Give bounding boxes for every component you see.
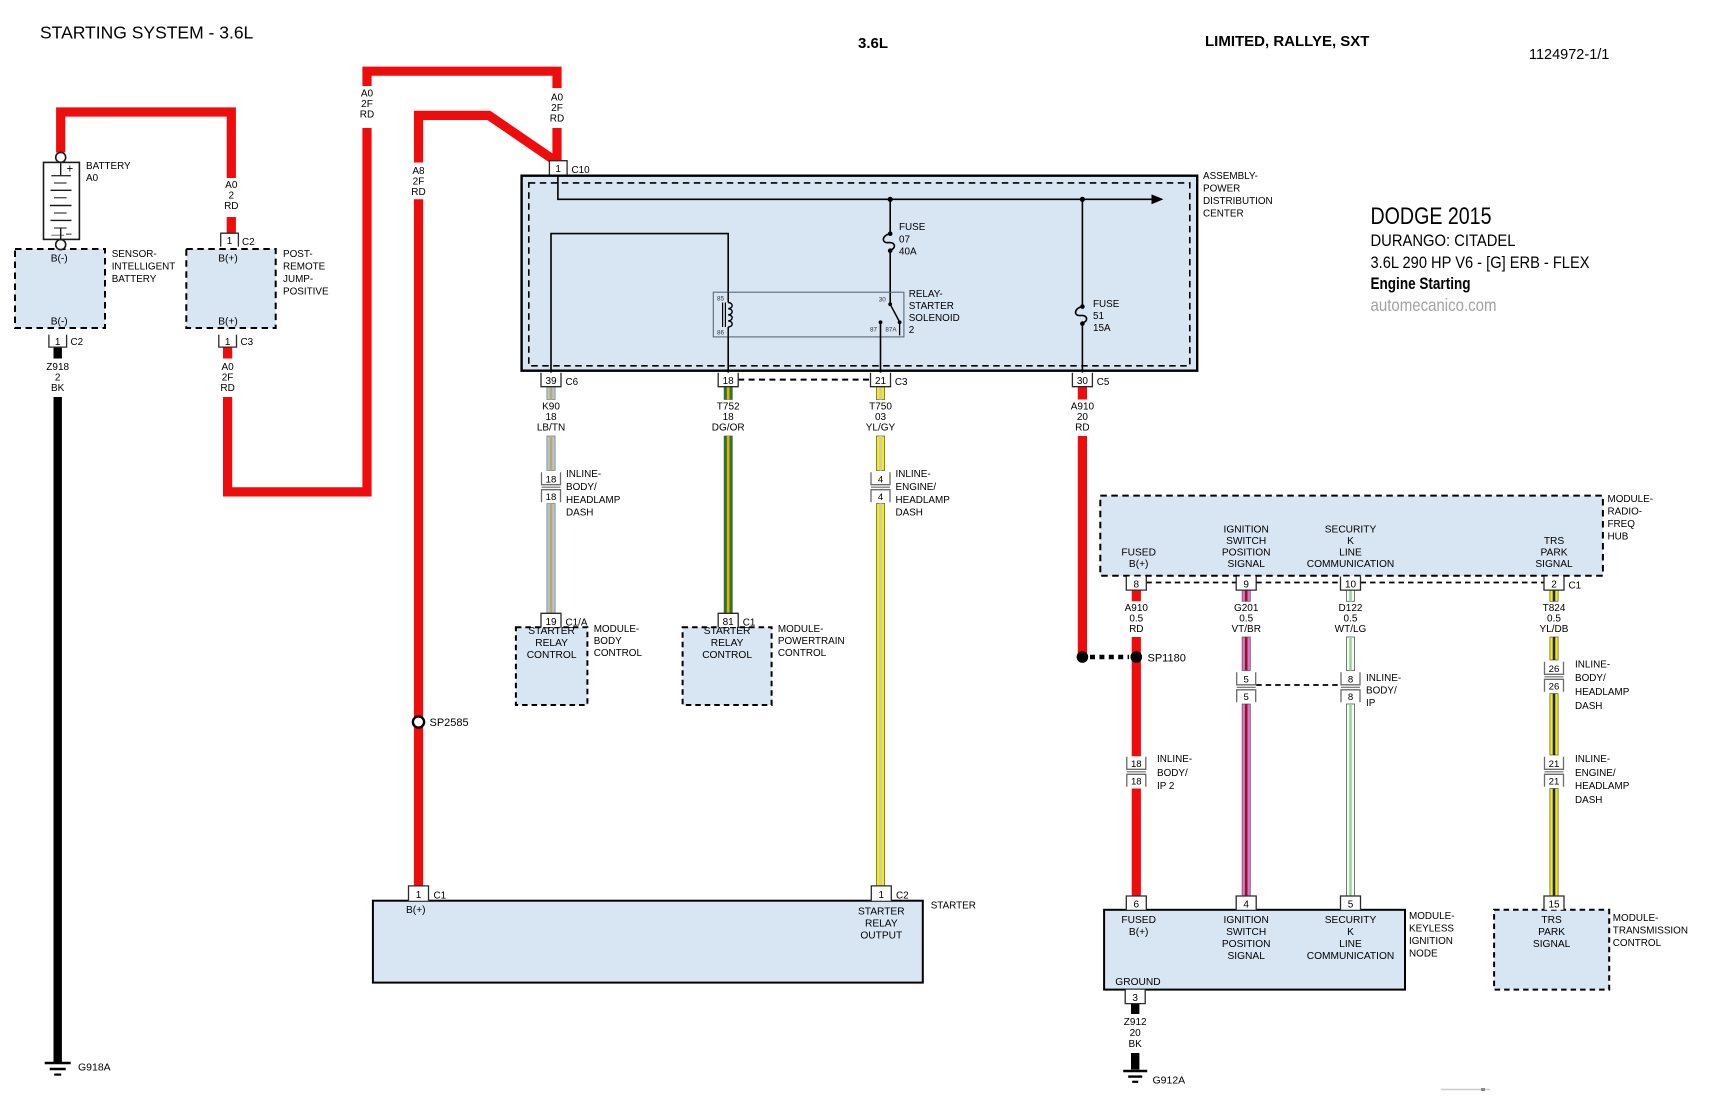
svg-text:1124972-1/1: 1124972-1/1 [1529,47,1609,63]
relay switch pins 30 87 87A [870,297,902,336]
svg-text:BK: BK [1129,1039,1143,1050]
svg-text:SECURITY: SECURITY [1325,915,1377,926]
label G912A [1153,1075,1186,1087]
label wire A0 2 RD [224,180,238,212]
svg-text:15A: 15A [1093,323,1111,334]
wire Z912 20 BK keyless ground [1131,1004,1139,1070]
svg-text:FUSE: FUSE [1093,299,1120,310]
label wire Z912 20 BK [1124,1017,1147,1050]
starter box [373,901,923,983]
module-powertrain control box [683,627,772,705]
svg-text:HEADLAMP: HEADLAMP [566,495,621,506]
svg-text:SWITCH: SWITCH [1226,536,1266,547]
svg-text:SENSOR-: SENSOR- [112,249,157,260]
svg-text:26: 26 [1549,664,1560,675]
connector pin 15 transmission [1544,896,1564,910]
svg-text:T752: T752 [717,402,740,413]
svg-text:15: 15 [1548,899,1560,910]
splice SP2585 [413,716,424,727]
svg-text:RD: RD [550,114,564,125]
dashed link pin18 to pin21 [738,379,870,381]
svg-text:G918A: G918A [78,1062,111,1074]
svg-text:HEADLAMP: HEADLAMP [1575,781,1630,792]
svg-text:A0: A0 [221,362,234,373]
svg-text:C3: C3 [895,377,908,388]
svg-text:PARK: PARK [1538,927,1565,938]
svg-text:0.5: 0.5 [1344,614,1358,625]
svg-text:A0: A0 [225,180,238,191]
label starter relay output [858,907,905,942]
connector pin 1 C10 [549,161,590,176]
svg-text:POWERTRAIN: POWERTRAIN [778,636,845,647]
svg-text:MODULE-: MODULE- [1613,913,1659,924]
svg-text:OUTPUT: OUTPUT [860,931,902,942]
wire internal T750 from pin 87 to pin 21 [880,322,882,372]
label wire A910 20 RD [1071,402,1095,434]
svg-text:2F: 2F [413,177,425,188]
svg-text:2: 2 [229,191,235,202]
svg-text:DODGE 2015: DODGE 2015 [1371,203,1492,230]
svg-text:ENGINE/: ENGINE/ [896,482,937,493]
label wire A8 2F RD [411,166,425,198]
svg-text:21: 21 [1549,777,1560,788]
svg-text:DISTRIBUTION: DISTRIBUTION [1203,196,1273,207]
svg-text:8: 8 [1134,580,1140,591]
svg-text:RD: RD [360,110,374,121]
svg-text:1: 1 [555,164,561,175]
svg-text:INLINE-: INLINE- [1366,673,1401,684]
svg-text:IGNITION: IGNITION [1224,915,1269,926]
label wire T824 0.5 YL/DB [1540,603,1569,635]
label wire T750 03 YL/GY [866,402,896,434]
label starter [931,901,976,912]
label wire A0 2F RD left [220,362,234,394]
svg-text:4: 4 [878,492,884,503]
connector pin 10 hub [1341,577,1361,591]
sensor-intelligent battery box [15,249,105,328]
svg-text:3.6L: 3.6L [858,35,888,52]
hub pin label ignition switch position signal [1222,525,1271,571]
label wire A0 2F RD right [550,93,564,125]
ground G918A [45,1063,71,1075]
svg-text:A0: A0 [551,93,564,104]
svg-text:CONTROL: CONTROL [527,650,577,661]
label inline body IP 2 [1157,754,1192,792]
svg-text:8: 8 [1348,692,1353,703]
wire A910 0.5 RD from hub pin 8 through SP1180 to keyless pin 6 [1132,590,1141,896]
svg-text:C2: C2 [896,891,909,902]
connector pin 5 keyless [1341,896,1361,910]
svg-text:RELAY: RELAY [865,919,898,930]
wire Z918 2 BK battery negative [54,347,62,1063]
svg-text:4: 4 [1243,899,1249,910]
svg-text:ASSEMBLY-: ASSEMBLY- [1203,171,1258,182]
svg-text:A8: A8 [412,166,425,177]
svg-text:G201: G201 [1234,603,1259,614]
connector pin 9 hub [1236,577,1256,591]
wire internal K90 branch from C6 to relay coil [551,234,728,373]
svg-text:INLINE-: INLINE- [896,469,931,480]
splice SP1180 [1077,651,1143,663]
svg-text:SIGNAL: SIGNAL [1533,939,1571,950]
svg-text:SIGNAL: SIGNAL [1228,559,1266,570]
label module powertrain control [778,624,845,659]
label wire T752 18 DG/OR [712,402,745,434]
connector pin 1 C2 starter [871,886,908,902]
svg-text:6: 6 [1134,899,1140,910]
svg-text:−: − [66,229,73,241]
svg-text:SP2585: SP2585 [430,717,469,729]
svg-text:PARK: PARK [1541,548,1568,559]
dashed link inline 5 to inline 8 [1256,684,1340,686]
label inline body headlamp dash right [1575,660,1630,713]
svg-text:BODY/: BODY/ [566,482,597,493]
svg-text:SOLENOID: SOLENOID [909,313,960,324]
svg-text:T750: T750 [869,402,892,413]
connector pin 1 C1 starter [409,886,447,902]
inline connector 26 26 on T824 [1545,662,1564,693]
connector pin 18 pdc [718,373,738,388]
svg-text:+: + [67,164,74,176]
inline connector 18 18 body/headlamp on K90 [542,472,561,503]
label G918A [78,1062,111,1074]
svg-text:INLINE-: INLINE- [1575,754,1610,765]
svg-text:SP1180: SP1180 [1148,653,1186,665]
svg-text:5: 5 [1348,899,1354,910]
label post-remote jump-positive [283,249,329,298]
svg-text:LINE: LINE [1339,548,1362,559]
svg-text:STARTER: STARTER [931,901,976,912]
hub pin label fused B+ [1121,548,1156,571]
svg-text:A0: A0 [361,89,374,100]
svg-text:INTELLIGENT: INTELLIGENT [112,262,176,273]
svg-text:DASH: DASH [1575,795,1602,806]
connector pin 19 C1/A [541,613,588,628]
relay starter solenoid box U-relay [713,292,904,337]
svg-text:RD: RD [411,187,425,198]
svg-text:20: 20 [1077,412,1089,423]
svg-text:STARTER: STARTER [909,301,954,312]
svg-text:18: 18 [723,412,735,423]
svg-text:B(-): B(-) [51,317,68,328]
svg-text:18: 18 [545,412,557,423]
svg-text:FUSED: FUSED [1121,548,1156,559]
svg-text:RADIO-: RADIO- [1608,507,1643,518]
svg-text:STARTER: STARTER [858,907,905,918]
svg-text:07: 07 [899,235,910,246]
svg-text:automecanico.com: automecanico.com [1371,295,1497,315]
assembly power distribution center box [522,176,1198,371]
svg-text:85: 85 [717,296,725,303]
svg-text:HEADLAMP: HEADLAMP [896,495,951,506]
svg-text:RD: RD [1129,624,1143,635]
module-radio-freq hub box [1100,496,1603,576]
svg-text:B(-): B(-) [51,254,68,265]
label inline body IP [1366,673,1401,709]
svg-text:MODULE-: MODULE- [1608,494,1654,505]
keyless pin label ignition switch position signal [1222,915,1271,962]
svg-text:POST-: POST- [283,249,313,260]
svg-text:B(+): B(+) [1129,559,1149,570]
svg-text:POSITION: POSITION [1222,548,1271,559]
svg-text:DASH: DASH [896,508,923,519]
svg-text:87A: 87A [885,327,897,334]
svg-text:RELAY: RELAY [711,638,744,649]
keyless pin label security K line communication [1307,915,1395,962]
svg-text:FUSED: FUSED [1121,915,1156,926]
svg-text:A910: A910 [1125,603,1149,614]
wire C10 feed bus with arrow [558,174,1164,204]
svg-text:Z918: Z918 [46,362,69,373]
wire T824 0.5 YL/DB [1550,590,1558,896]
keyless pin label fused B+ [1121,915,1156,938]
svg-text:87: 87 [870,327,878,334]
svg-text:STARTER: STARTER [704,626,751,637]
svg-text:C1: C1 [434,891,447,902]
starter pin B+ [406,905,426,916]
svg-text:TRANSMISSION: TRANSMISSION [1613,926,1688,937]
svg-text:C2: C2 [71,337,84,348]
svg-text:18: 18 [723,376,735,387]
svg-text:4: 4 [878,475,884,486]
hub pin label TRS park signal [1535,536,1573,570]
svg-text:21: 21 [875,376,887,387]
node B(+) pins post [218,254,238,328]
svg-text:B(+): B(+) [406,905,426,916]
transmission pin label TRS park signal [1533,915,1571,950]
wire G201 0.5 VT/BR [1242,590,1250,896]
svg-text:CONTROL: CONTROL [702,650,752,661]
svg-text:BODY/: BODY/ [1157,768,1188,779]
svg-text:20: 20 [1130,1028,1142,1039]
label module keyless ignition node [1409,911,1455,960]
svg-text:2F: 2F [361,99,373,110]
svg-text:FREQ: FREQ [1608,519,1636,530]
svg-text:STARTER: STARTER [528,626,575,637]
connector pin 1 C2 sensor bottom [49,335,83,349]
svg-text:21: 21 [1549,759,1560,770]
connector pin 39 C6 [541,373,579,388]
inline connector 5 5 on G201 [1237,672,1256,703]
ground G912A [1123,1071,1147,1082]
svg-text:3.6L 290 HP V6 - [G] ERB - FLE: 3.6L 290 HP V6 - [G] ERB - FLEX [1371,253,1590,272]
svg-text:26: 26 [1549,682,1560,693]
svg-text:18: 18 [1131,777,1142,788]
svg-text:0.5: 0.5 [1239,614,1253,625]
svg-text:C2: C2 [242,237,255,248]
wire A0 2 RD battery positive to C2 [61,112,232,234]
label wire G201 0.5 VT/BR [1231,603,1260,635]
svg-text:K: K [1347,536,1354,547]
svg-text:LIMITED, RALLYE, SXT: LIMITED, RALLYE, SXT [1205,33,1369,50]
svg-text:C6: C6 [566,377,579,388]
connector pin 21 C3 pdc [871,373,909,388]
svg-text:RELAY-: RELAY- [909,289,943,300]
svg-text:2F: 2F [222,373,234,384]
svg-text:1: 1 [55,337,61,348]
svg-text:9: 9 [1243,580,1249,591]
svg-text:03: 03 [875,412,887,423]
wire K90 18 LB/TN [547,387,555,614]
label wire K90 18 LB/TN [537,402,565,434]
svg-text:IP 2: IP 2 [1157,781,1174,792]
svg-text:RD: RD [1075,423,1089,434]
svg-text:51: 51 [1093,311,1104,322]
svg-text:D122: D122 [1339,603,1363,614]
label module radio freq hub [1608,494,1654,543]
svg-text:2: 2 [1551,580,1557,591]
connector pin 4 keyless [1236,896,1256,910]
svg-text:2F: 2F [551,103,563,114]
svg-text:5: 5 [1244,675,1249,686]
svg-text:BATTERY: BATTERY [112,274,157,285]
battery A0 [44,152,80,249]
wire D122 0.5 WT/LG [1346,590,1354,896]
svg-text:1: 1 [227,236,233,247]
svg-text:8: 8 [1348,675,1353,686]
node junction fuse07 bus [888,197,893,202]
vehicle info block [1371,203,1590,315]
wire internal T752 from coil to pin 18 [727,337,729,373]
svg-text:MODULE-: MODULE- [1409,911,1455,922]
connector pin 1 C2 post-remote top [221,233,255,248]
svg-text:1: 1 [225,337,231,348]
svg-text:86: 86 [717,330,725,337]
svg-text:18: 18 [1131,759,1142,770]
module-transmission control box [1494,910,1609,990]
label inline engine/headlamp dash [896,469,951,519]
wire T750 03 YL/GY [876,387,884,886]
label starter relay control body [527,626,577,661]
svg-text:B(+): B(+) [218,317,238,328]
svg-text:NODE: NODE [1409,949,1438,960]
svg-text:IP: IP [1366,698,1376,709]
svg-text:Z912: Z912 [1124,1017,1147,1028]
label fuse 51 15A [1093,299,1120,334]
svg-text:REMOTE: REMOTE [283,262,326,273]
connector pin 3 keyless ground [1125,990,1145,1005]
connector pin 6 keyless [1126,896,1146,910]
svg-text:B(+): B(+) [218,254,238,265]
svg-text:VT/BR: VT/BR [1231,624,1260,635]
label module body control [594,624,643,659]
inline connector 8 8 on D122 [1341,672,1360,703]
svg-text:1: 1 [416,890,422,901]
svg-text:BK: BK [51,383,65,394]
svg-text:40A: 40A [899,247,917,258]
svg-text:INLINE-: INLINE- [1575,660,1610,671]
svg-text:CONTROL: CONTROL [1613,938,1662,949]
label relay starter solenoid [909,289,960,336]
connector pin 81 C1 [718,613,756,628]
svg-text:BODY: BODY [594,636,622,647]
svg-text:1: 1 [879,890,885,901]
svg-text:C10: C10 [572,165,591,176]
svg-text:RD: RD [220,383,234,394]
svg-text:C3: C3 [241,337,254,348]
svg-text:SWITCH: SWITCH [1226,927,1266,938]
svg-text:YL/DB: YL/DB [1540,624,1569,635]
svg-text:RELAY: RELAY [535,638,568,649]
svg-text:G912A: G912A [1153,1075,1186,1087]
wire A0 2F RD from C3 up and over to C10 [228,71,557,492]
svg-text:K90: K90 [542,402,560,413]
svg-text:COMMUNICATION: COMMUNICATION [1307,951,1395,962]
wire A910 20 RD from C5 to splice SP1180 [1078,387,1087,657]
wire T752 18 DG/OR [724,387,732,614]
label battery [86,161,131,184]
svg-text:LINE: LINE [1339,939,1362,950]
connector pin 2 C1 hub [1544,577,1582,592]
label wire A910 0.5 RD [1125,603,1149,635]
svg-text:IGNITION: IGNITION [1409,936,1453,947]
post-remote jump-positive box [186,249,275,328]
svg-text:GROUND: GROUND [1115,977,1160,988]
label sensor-intelligent battery [112,249,176,285]
label module transmission control [1613,913,1688,949]
module-body control box [516,627,588,705]
label SP2585 [430,717,469,729]
svg-text:Engine Starting: Engine Starting [1371,274,1471,293]
svg-text:2: 2 [909,325,915,336]
svg-text:POSITION: POSITION [1222,939,1271,950]
node junction fuse51 bus [1080,197,1085,202]
svg-text:RD: RD [224,201,238,212]
svg-text:DURANGO: CITADEL: DURANGO: CITADEL [1371,231,1516,250]
svg-text:18: 18 [546,492,557,503]
svg-text:K: K [1347,927,1354,938]
wire A8 2F RD from C10 down to starter C1 [419,115,556,886]
svg-text:MODULE-: MODULE- [778,624,824,635]
keyless pin label ground [1115,977,1160,988]
svg-text:KEYLESS: KEYLESS [1409,924,1454,935]
svg-text:DG/OR: DG/OR [712,423,745,434]
svg-text:C1: C1 [1569,581,1582,592]
module-keyless ignition node box [1104,910,1405,990]
svg-text:BODY/: BODY/ [1366,686,1397,697]
svg-text:0.5: 0.5 [1547,614,1561,625]
svg-text:T824: T824 [1543,603,1566,614]
svg-text:10: 10 [1345,580,1357,591]
hub pin label security K line communication [1307,525,1395,571]
svg-text:B(+): B(+) [1129,927,1149,938]
svg-text:HUB: HUB [1608,532,1629,543]
svg-text:SIGNAL: SIGNAL [1535,559,1573,570]
connector pin 8 hub [1126,577,1146,591]
label fuse 07 40A [899,222,926,258]
svg-text:BATTERY: BATTERY [86,161,131,172]
svg-text:C5: C5 [1097,377,1110,388]
svg-text:INLINE-: INLINE- [1157,754,1192,765]
svg-text:A910: A910 [1071,402,1095,413]
svg-text:TRS: TRS [1541,915,1562,926]
svg-text:LB/TN: LB/TN [537,423,565,434]
label wire A0 2F RD mid [360,89,374,121]
fuse F51 15A [1076,199,1087,372]
svg-text:JUMP-: JUMP- [283,274,313,285]
svg-text:39: 39 [545,376,557,387]
dashed link hub connector C1 [1146,582,1544,584]
svg-text:ENGINE/: ENGINE/ [1575,768,1616,779]
svg-text:3: 3 [1132,993,1138,1004]
svg-text:18: 18 [546,475,557,486]
svg-text:INLINE-: INLINE- [566,469,601,480]
label starter relay control powertrain [702,626,752,661]
svg-text:CONTROL: CONTROL [594,648,643,659]
svg-text:0.5: 0.5 [1129,614,1143,625]
label wire D122 0.5 WT/LG [1335,603,1367,635]
fuse F07 40A [883,199,894,302]
